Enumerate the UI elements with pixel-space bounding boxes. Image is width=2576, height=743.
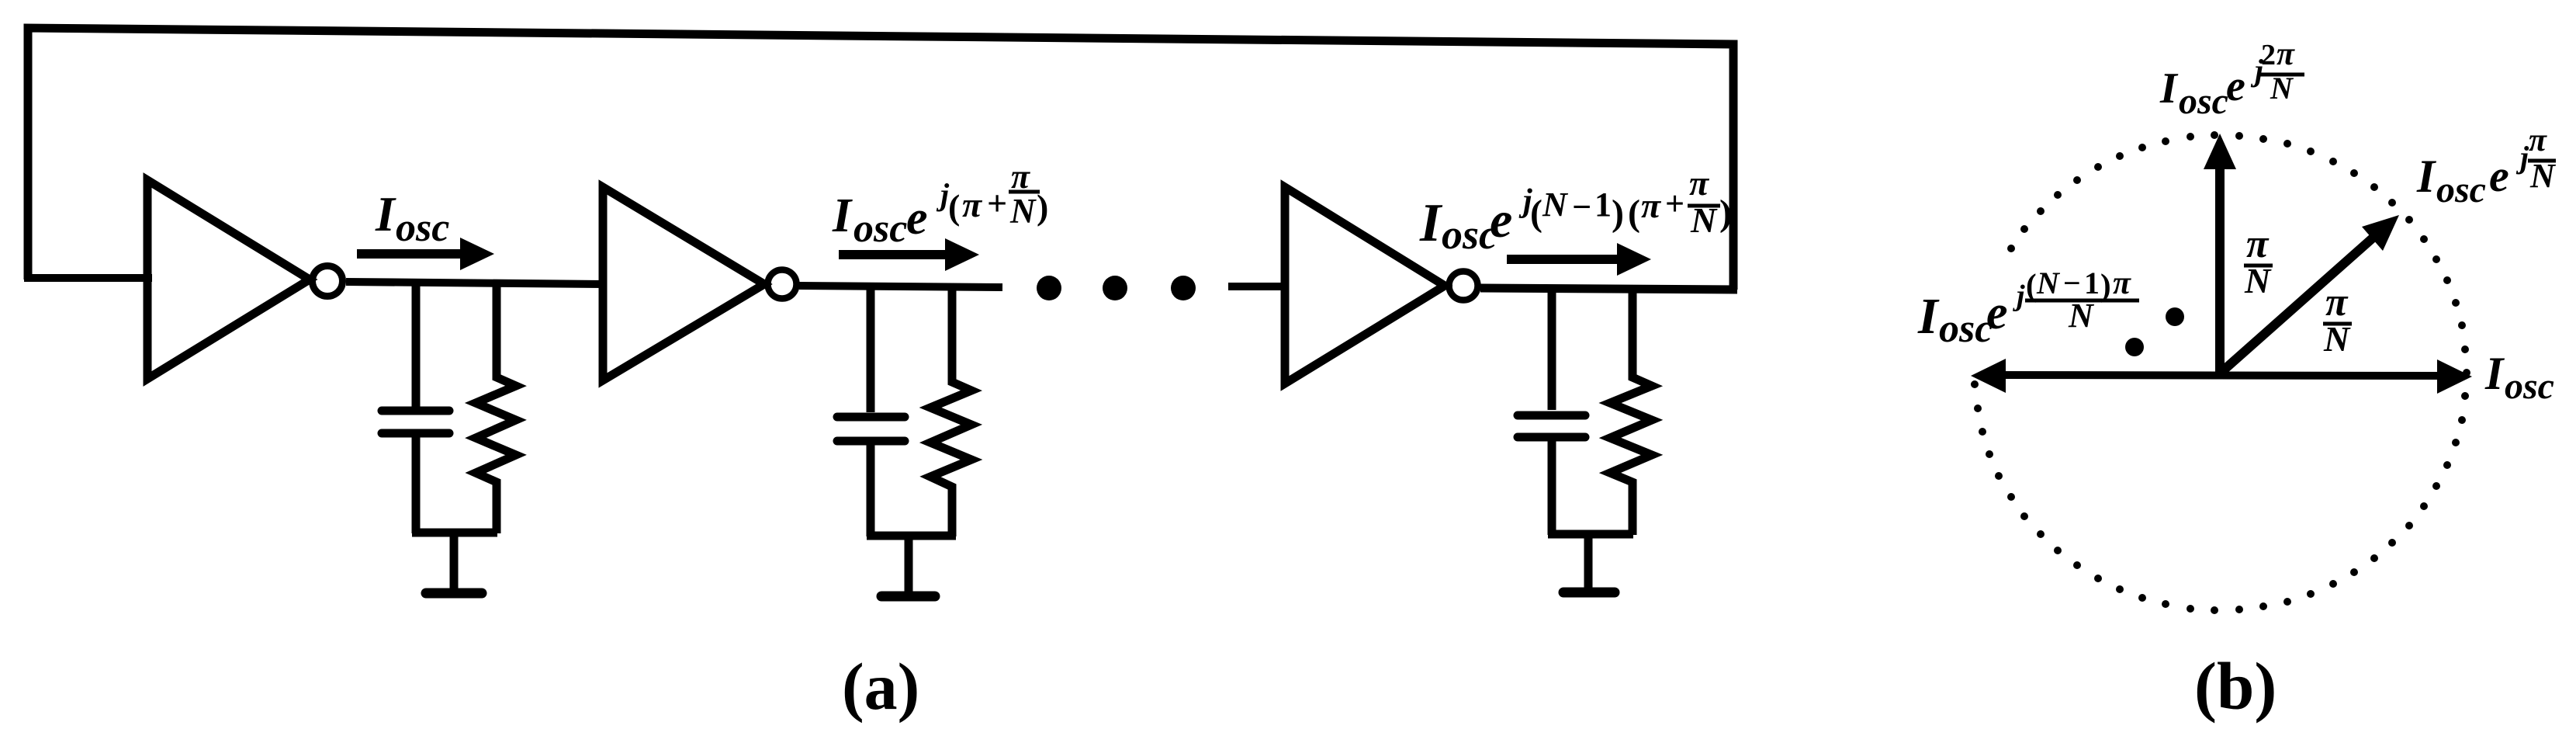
label pi/N (vertical angle) [2244,222,2273,300]
current arrow 2 [839,238,979,271]
svg-text:e: e [1490,192,1512,248]
label I_osc e^j pi/N (right) [2416,123,2557,210]
svg-text:): ) [1719,193,1732,234]
svg-text:π: π [2277,36,2295,72]
label I_osc e^j 2pi/N (top) [2159,36,2304,122]
svg-text:e: e [906,192,928,245]
label I_osc (right axis) [2484,348,2554,407]
svg-text:−: − [2063,266,2081,300]
svg-text:N: N [1009,192,1037,231]
svg-text:osc: osc [2505,366,2554,407]
svg-text:2: 2 [2261,39,2276,71]
svg-text:+: + [1665,185,1684,223]
wire node 1 (U1 output to U2 input) [346,282,607,284]
svg-text:−: − [1572,188,1591,226]
svg-text:): ) [1612,193,1624,234]
phasor dotted circle [1971,131,2470,614]
svg-text:+: + [987,183,1007,223]
svg-text:π: π [2529,123,2547,158]
svg-text:e: e [2489,151,2509,201]
svg-text:(: ( [1530,193,1542,234]
inverter U2 [603,187,797,380]
phasor dots (intermediate phasors) [2125,307,2184,356]
svg-text:N: N [1542,186,1569,224]
svg-text:N: N [1690,200,1718,240]
label (a) [842,649,919,724]
capacitor C1 [382,283,449,533]
svg-text:N: N [2244,261,2272,300]
svg-text:π: π [2325,280,2349,325]
svg-text:(: ( [948,187,960,227]
svg-text:π: π [962,185,983,224]
svg-text:I: I [2416,151,2437,202]
wire bottom node 1 [412,529,497,537]
svg-text:π: π [1689,163,1710,203]
wire into inverter U3 [1228,283,1288,290]
svg-text:π: π [2246,222,2270,266]
svg-text:(b): (b) [2194,648,2277,724]
wire node N (U3 output to feedback) [1480,288,1737,290]
svg-text:e: e [1986,286,2008,339]
wire feedback loop [28,28,1733,290]
wire bottom node 3 [1548,530,1633,539]
svg-text:(: ( [1628,193,1640,234]
svg-text:N: N [2529,157,2557,195]
phasor axis -I_osc to I_osc [1971,359,2472,394]
label I_osc e^j(pi+pi/N) [832,158,1048,251]
phasor arrow I_osc e^j2pi/N (vertical) [2204,134,2236,373]
resistor R2 [930,286,971,536]
svg-text:(a): (a) [842,649,919,724]
svg-text:osc: osc [853,207,907,251]
svg-text:I: I [1419,193,1443,253]
svg-text:N: N [2068,297,2095,335]
svg-text:osc: osc [1939,307,1993,351]
phasor arrow I_osc e^jpi/N (diagonal) [2220,215,2399,373]
resistor R1 [476,283,516,533]
svg-text:1: 1 [1594,186,1612,224]
svg-text:N: N [2036,266,2061,300]
svg-text:osc: osc [2436,169,2486,210]
wire node 2 [799,286,1002,287]
current arrow 3 [1507,243,1651,276]
ground 1 [426,533,482,593]
label I_osc [375,186,449,250]
capacitor C2 [837,286,905,536]
label pi/N (diagonal angle) [2323,280,2352,359]
resistor R3 [1610,288,1652,535]
svg-text:I: I [2484,348,2505,399]
svg-text:π: π [2113,266,2131,301]
svg-text:N: N [2323,319,2351,359]
svg-text:osc: osc [2179,81,2228,122]
capacitor C3 [1518,287,1585,535]
wire input to inverter U1 [24,274,152,282]
svg-text:π: π [1641,186,1662,225]
inverter U3 [1285,187,1478,384]
svg-text:osc: osc [396,206,449,250]
wire bottom node 2 [867,532,956,540]
svg-text:): ) [1037,187,1048,227]
svg-text:N: N [2270,71,2294,106]
svg-text:(: ( [2026,267,2037,303]
label I_osc e^j(N-1)pi/N (left) [1917,266,2139,351]
label (b) [2194,648,2277,724]
svg-text:): ) [2100,267,2111,303]
svg-text:I: I [2159,64,2179,113]
current arrow I_osc [357,238,494,270]
svg-text:I: I [1917,288,1940,345]
label I_osc e^j(N-1)(pi+pi/N) [1419,163,1732,258]
svg-text:e: e [2226,62,2245,110]
svg-text:I: I [375,186,396,241]
dots (ellipsis) [1037,276,1196,300]
ground 2 [881,536,935,596]
svg-text:I: I [832,189,853,242]
inverter U1 [147,180,343,379]
svg-text:1: 1 [2084,266,2100,300]
ground 3 [1563,534,1615,592]
